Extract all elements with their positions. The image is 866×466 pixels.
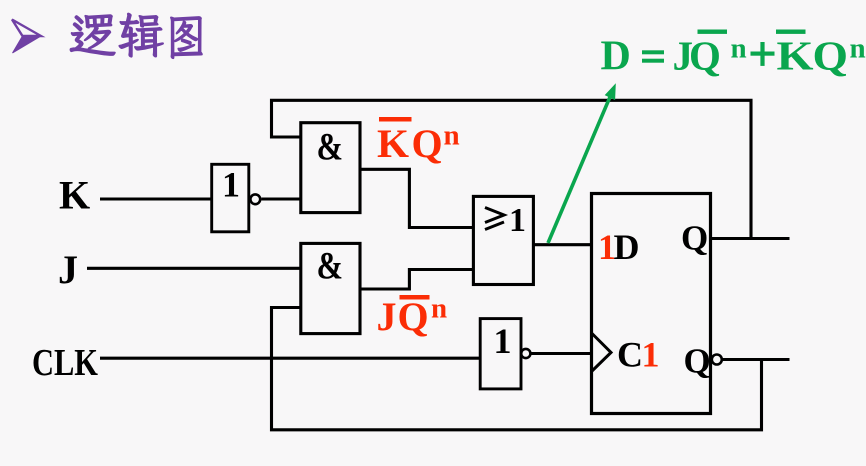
svg-text:Q: Q (684, 342, 711, 381)
flip-flop clock edge triangle (592, 333, 612, 372)
inverter G5 output bubble (521, 349, 530, 358)
svg-text:D: D (601, 34, 631, 80)
svg-text:n: n (444, 120, 460, 152)
wire: AND G3 output to OR gate G4 input 2 (360, 270, 473, 290)
AND gate G3 box (bottom, J path) (301, 243, 360, 333)
wire: AND G2 output to OR gate G4 input 1 (360, 169, 473, 227)
svg-text:Q: Q (689, 33, 721, 79)
svg-text:&: & (317, 126, 344, 169)
red label JQ^n with overline on Q (377, 293, 448, 340)
flip-flop inverted output bubble (712, 355, 722, 365)
inverter G1 box (212, 164, 249, 232)
svg-text:D: D (614, 227, 640, 267)
wire: inverter G5 bubble to flip-flop clock input (531, 352, 592, 355)
wire: inverter G1 bubble to AND gate G2 (262, 197, 301, 200)
svg-text:Q: Q (398, 294, 429, 339)
svg-text:Q: Q (681, 218, 708, 257)
wire: K input to inverter G1 (100, 197, 212, 200)
svg-text:1: 1 (642, 335, 660, 375)
svg-text:J: J (58, 247, 78, 292)
svg-text:n: n (731, 32, 747, 64)
wire: inverted Q output (722, 358, 789, 361)
svg-text:K: K (777, 33, 814, 79)
formula D = JQ^n + KQ^n (green) (601, 30, 866, 80)
wire: top feedback from Q down-left into AND G2 input 1 (272, 100, 752, 238)
svg-text:K: K (59, 173, 90, 218)
svg-text:Q: Q (813, 33, 849, 79)
wire: J input to AND gate G3 (87, 267, 301, 270)
svg-text:CLK: CLK (32, 342, 98, 384)
svg-text:K: K (377, 121, 409, 166)
wire: CLK input to inverter G5 (100, 357, 480, 360)
wire: bottom feedback from inverted Q to AND G3 input 2 (272, 308, 762, 430)
inverter G5 box (480, 319, 521, 389)
wire: OR G4 output to flip-flop 1D input (533, 243, 591, 246)
red label KQ^n with overline on K (377, 117, 460, 166)
inverter G1 output bubble (250, 194, 260, 204)
svg-text:1: 1 (222, 165, 240, 205)
title text 逻辑图 (KaiTi-style glyph outlines) (70, 13, 202, 58)
wire: Q output (711, 237, 790, 240)
svg-text:&: & (317, 245, 344, 288)
D flip-flop U1 box (592, 194, 711, 414)
OR gate G4 box (473, 196, 533, 284)
svg-text:n: n (431, 293, 447, 325)
AND gate G2 box (top, K path) (301, 123, 360, 213)
svg-text:n: n (850, 32, 866, 64)
svg-text:C: C (617, 335, 643, 375)
annotation arrow (green) from OR output up to formula (548, 83, 616, 243)
svg-text:Q: Q (412, 121, 443, 166)
OR gate G4 label >=1 (485, 208, 504, 230)
svg-text:J: J (377, 294, 397, 339)
title bullet arrow (12, 20, 41, 54)
svg-text:1: 1 (494, 321, 512, 361)
svg-text:1: 1 (509, 202, 526, 239)
